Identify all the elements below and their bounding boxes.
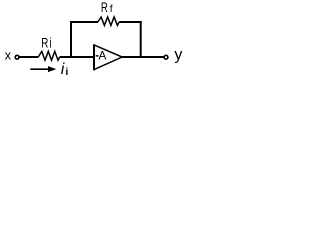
svg-text:i: i	[65, 66, 68, 78]
svg-text:f: f	[110, 4, 113, 15]
svg-text:Ri: Ri	[41, 36, 51, 51]
svg-text:x: x	[5, 48, 12, 62]
svg-text:y: y	[174, 47, 182, 64]
svg-text:i: i	[61, 61, 65, 78]
svg-text:R: R	[101, 0, 108, 16]
svg-text:A: A	[98, 48, 106, 62]
